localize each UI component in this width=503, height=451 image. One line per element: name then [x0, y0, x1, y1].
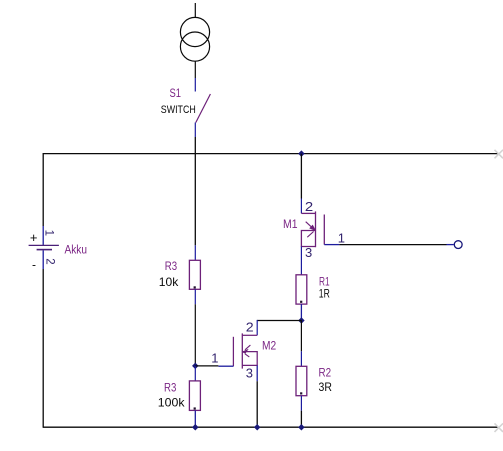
- top rail wire: [43, 153, 498, 155]
- pin 2 stub: [194, 289, 196, 304]
- wire drain: [300, 154, 302, 199]
- svg-text:SWITCH: SWITCH: [161, 104, 196, 116]
- source box: [242, 352, 257, 366]
- svg-text:1R: 1R: [319, 286, 330, 300]
- source box: [301, 231, 315, 247]
- pin 3 stub: [256, 365, 258, 381]
- arrow: [245, 345, 250, 350]
- node junction top rail / M1 drain: [298, 150, 305, 157]
- svg-text:1: 1: [211, 350, 218, 365]
- positive plate: [29, 244, 59, 246]
- wire M2 source to bottom rail: [256, 381, 258, 427]
- svg-text:3: 3: [305, 245, 312, 260]
- svg-text:3R: 3R: [319, 380, 333, 394]
- switch blade: [196, 94, 211, 123]
- wire M1 gate to output: [339, 244, 446, 246]
- negative plate: [37, 249, 52, 251]
- svg-text:100k: 100k: [158, 396, 186, 410]
- gate bar: [232, 337, 234, 367]
- svg-text:-: -: [32, 258, 36, 272]
- resistor body: [189, 260, 200, 289]
- resistor R3 10k: [159, 154, 201, 366]
- svg-text:R3: R3: [164, 383, 176, 395]
- svg-text:2: 2: [305, 199, 313, 214]
- pin 2 stub: [256, 320, 258, 335]
- node junction bottom rail / M2: [254, 424, 261, 431]
- pin 1 wire: [42, 226, 44, 245]
- arrow: [306, 222, 313, 228]
- pin 2 stub: [300, 304, 302, 320]
- channel bar: [315, 211, 317, 247]
- svg-text:10k: 10k: [159, 275, 179, 289]
- pin 2 stub: [194, 410, 196, 427]
- switch S1: [161, 78, 211, 154]
- pin 2 stub: [300, 199, 302, 214]
- resistor R1: [296, 262, 330, 321]
- resistor R3 100k: [158, 366, 201, 427]
- battery Akku: [29, 226, 87, 272]
- wire drain from junction: [257, 320, 301, 322]
- transformer secondary circle: [180, 32, 209, 61]
- pin 2 wire: [42, 250, 44, 269]
- transformer source at top: [180, 3, 209, 78]
- wire node to M2 gate: [195, 365, 218, 367]
- svg-text:R2: R2: [319, 368, 332, 380]
- resistor body: [296, 366, 307, 395]
- drain bar: [242, 334, 257, 336]
- svg-text:2: 2: [246, 320, 254, 335]
- svg-text:3: 3: [246, 365, 253, 380]
- svg-text:Akku: Akku: [65, 245, 88, 257]
- svg-text:2: 2: [43, 258, 55, 264]
- node junction R3/M2 gate: [192, 363, 199, 370]
- wire down: [194, 304, 196, 366]
- drain bar: [301, 212, 315, 214]
- wire-end ghost marker top right: [495, 150, 503, 159]
- origin dot: [300, 392, 302, 394]
- left rail wire lower: [42, 269, 44, 428]
- gate bar: [323, 215, 325, 245]
- pin 1 stub: [194, 245, 196, 260]
- svg-text:M2: M2: [262, 341, 276, 353]
- pin 2 stub: [300, 396, 302, 411]
- channel bar: [241, 333, 243, 368]
- pin (bottom contact): [194, 123, 196, 138]
- left rail wire upper: [42, 153, 44, 226]
- origin dot: [194, 286, 196, 288]
- pin 1 stub: [194, 366, 196, 381]
- pin (top contact): [194, 78, 196, 92]
- output terminal circle: [454, 241, 462, 249]
- bottom rail wire: [43, 426, 498, 428]
- node junction bottom rail / R2: [298, 424, 305, 431]
- svg-text:+: +: [30, 230, 38, 245]
- wire from top rail: [194, 154, 196, 246]
- gate pin 1 stub: [324, 244, 339, 246]
- wire: [194, 61, 196, 78]
- wire: [194, 137, 196, 154]
- origin dot: [194, 407, 196, 409]
- wire to bottom rail: [300, 411, 302, 428]
- svg-text:M1: M1: [283, 219, 298, 231]
- svg-text:S1: S1: [170, 88, 182, 100]
- gate pin 1 stub: [218, 365, 233, 367]
- svg-text:R3: R3: [165, 261, 177, 273]
- svg-text:1: 1: [338, 230, 345, 245]
- terminal pin stub: [447, 244, 454, 246]
- transistor M2: [211, 320, 301, 382]
- svg-text:1: 1: [43, 230, 55, 236]
- wire junction down to R2: [300, 320, 302, 351]
- node junction bottom rail / R3 100k: [192, 424, 199, 431]
- pin 3 stub: [300, 247, 302, 262]
- wire: [194, 3, 196, 18]
- resistor R2: [296, 351, 332, 427]
- pin 1 stub: [300, 351, 302, 366]
- transistor M1: [283, 150, 345, 261]
- wire-end ghost marker bottom right: [495, 423, 503, 432]
- origin dot: [300, 301, 302, 303]
- resistor body: [189, 381, 200, 411]
- node junction R1/R2/M2 drain: [298, 317, 305, 324]
- transformer primary circle: [180, 17, 209, 46]
- resistor body: [296, 275, 307, 304]
- pin 1 stub: [300, 262, 302, 275]
